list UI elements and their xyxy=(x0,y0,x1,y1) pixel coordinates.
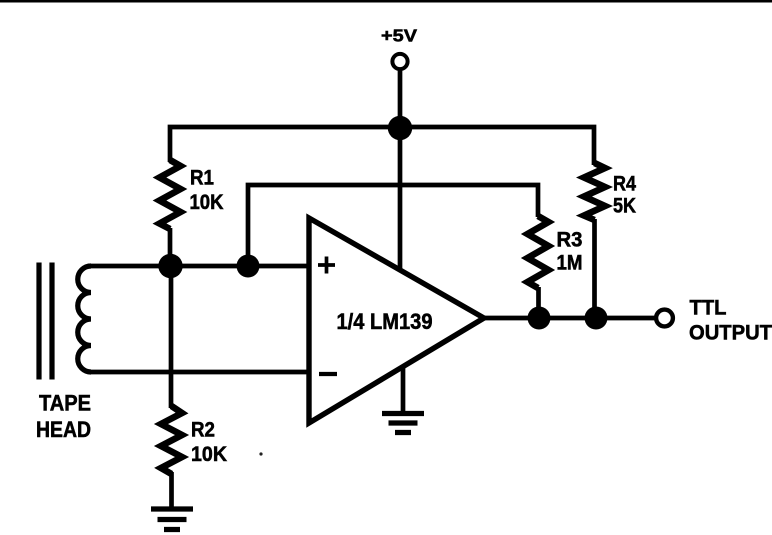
stray ink speck xyxy=(259,452,262,455)
svg-text:R4: R4 xyxy=(613,173,636,196)
ground (op-amp) xyxy=(382,414,424,433)
wire R3 to output node xyxy=(536,287,541,318)
svg-text:R1: R1 xyxy=(190,167,214,190)
node output/R3 junction xyxy=(528,307,551,330)
resistor R3 xyxy=(528,216,549,288)
node output/R4 junction xyxy=(585,307,608,330)
svg-text:TTL: TTL xyxy=(690,296,727,320)
wire feedback from node B to R3 xyxy=(248,185,538,266)
tape head gap bars xyxy=(39,263,52,380)
wire noninverting input (y=266) xyxy=(88,264,309,269)
wire op-amp ground stem xyxy=(401,367,406,411)
wire node A down to R2 xyxy=(169,266,174,408)
top border bar xyxy=(0,0,772,3)
svg-text:HEAD: HEAD xyxy=(36,417,91,442)
wire inverting input (y=372) xyxy=(91,370,309,375)
svg-text:10K: 10K xyxy=(191,443,227,466)
svg-text:R3: R3 xyxy=(557,229,583,252)
svg-text:1/4 LM139: 1/4 LM139 xyxy=(337,309,433,334)
node B (feedback tap) xyxy=(237,255,260,278)
resistor R2 xyxy=(161,406,182,474)
svg-text:+5V: +5V xyxy=(381,26,417,46)
wire top rail with corners to R1 and R4 xyxy=(170,127,594,165)
svg-text:10K: 10K xyxy=(190,191,224,214)
resistor R1 xyxy=(160,160,181,229)
svg-text:OUTPUT: OUTPUT xyxy=(689,321,772,345)
wire R2 to ground xyxy=(169,472,174,509)
node junction at +5V and rail xyxy=(388,116,412,140)
svg-text:TAPE: TAPE xyxy=(39,391,91,416)
svg-text:R2: R2 xyxy=(191,419,215,442)
svg-text:5K: 5K xyxy=(613,195,636,218)
inductor tape head coil xyxy=(78,266,91,372)
wire R1 bottom to node A xyxy=(168,228,173,266)
pin - (inverting) xyxy=(319,372,337,376)
ground (below R2) xyxy=(151,509,193,530)
wire output xyxy=(484,316,656,321)
wire R4 to output node xyxy=(592,219,597,318)
terminal TTL output xyxy=(656,310,673,327)
wire +5V vertical into op-amp xyxy=(398,69,403,270)
op-amp U1 triangle 1/4 LM139 xyxy=(309,218,484,423)
svg-text:1M: 1M xyxy=(557,252,583,275)
terminal +5V xyxy=(392,54,407,69)
node A (R1/R2/tape head/+ input) xyxy=(158,254,182,278)
resistor R4 xyxy=(584,163,605,220)
pin + (noninverting) xyxy=(318,257,335,274)
